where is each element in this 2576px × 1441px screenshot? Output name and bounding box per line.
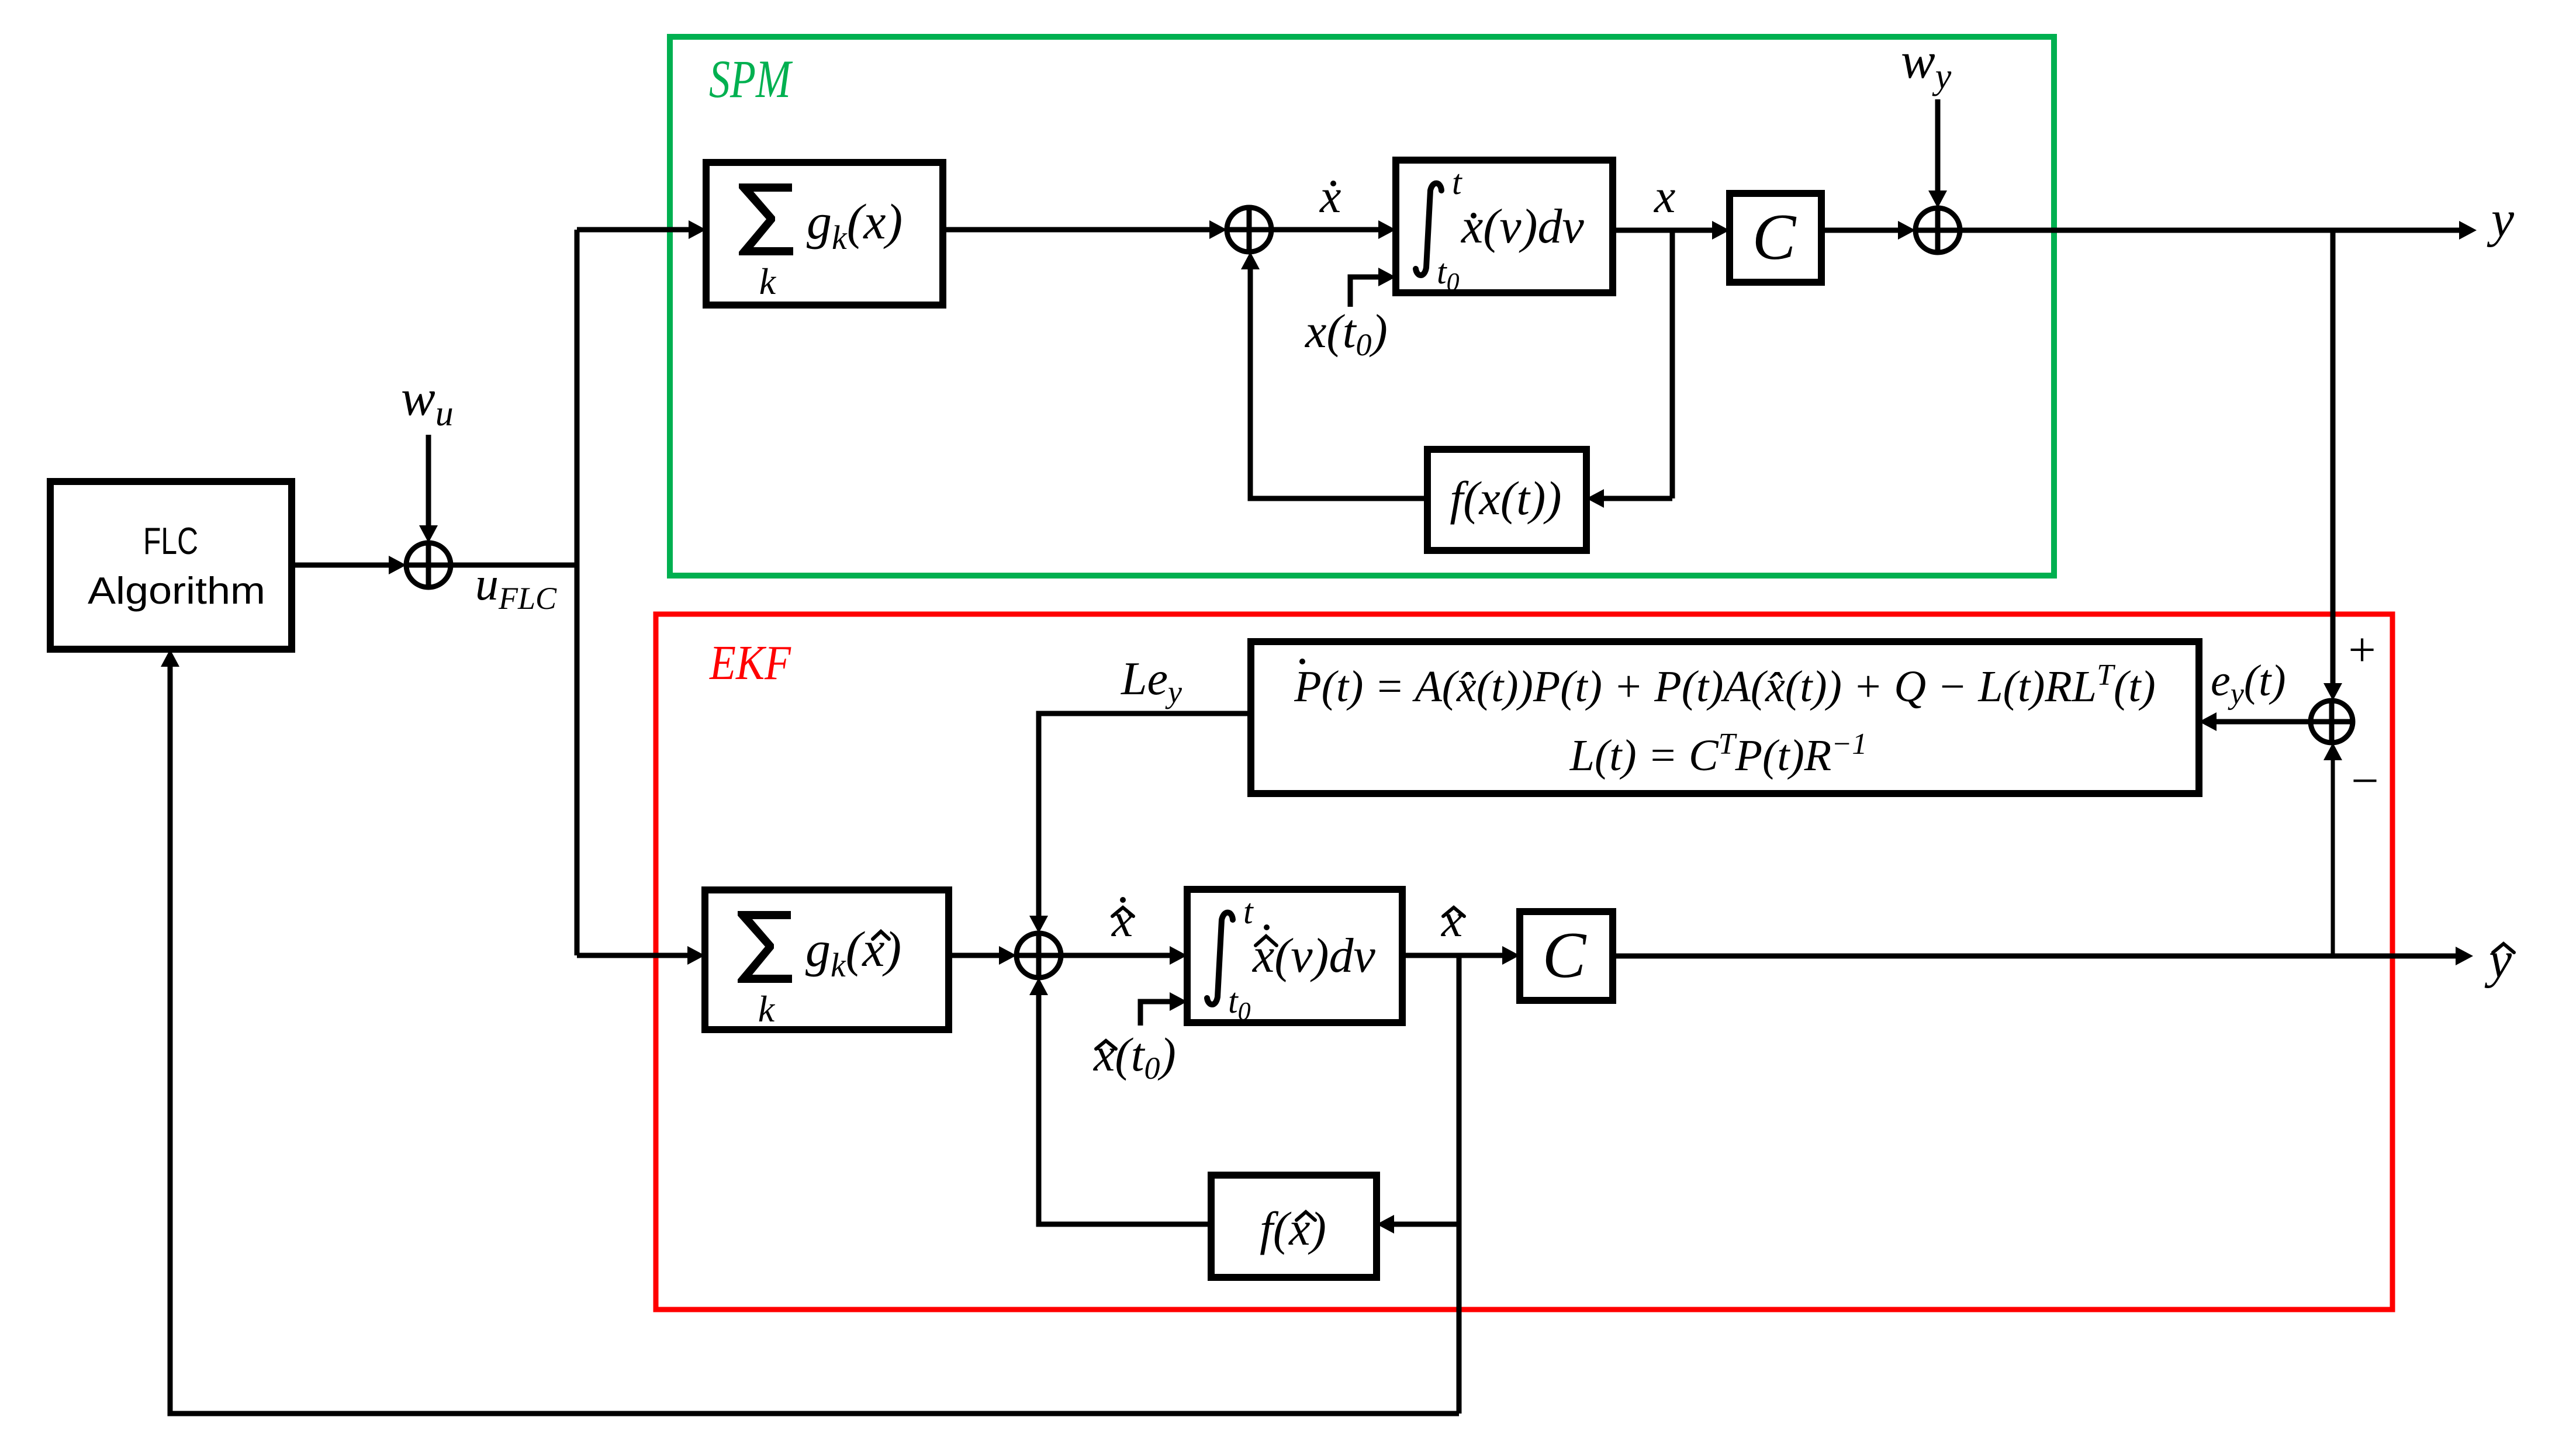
wire e_y summer output into P(t) block <box>2213 719 2311 725</box>
wire C block to w_y summer <box>1821 228 1901 233</box>
wire FLC output to w_u summer <box>292 563 392 568</box>
summer for w_y <box>1915 208 1960 252</box>
svg-text:x: x <box>1319 169 1341 223</box>
svg-text:Algorithm: Algorithm <box>88 569 265 612</box>
wire x node down-branch <box>1670 230 1675 498</box>
SPM C block <box>1730 193 1821 282</box>
svg-text:SPM: SPM <box>709 49 793 109</box>
SPM sum of g_k(x) block text <box>739 183 793 255</box>
svg-text:P(t) = A(x̂(t))P(t) + P(t)A(x̂: P(t) = A(x̂(t))P(t) + P(t)A(x̂(t)) + Q −… <box>1294 659 2155 711</box>
summer SPM state derivative <box>1227 207 1271 252</box>
EKF boundary (red frame) <box>656 614 2392 1310</box>
wire yhat output <box>1613 954 2459 959</box>
svg-text:x: x <box>1654 169 1675 223</box>
svg-text:wu: wu <box>401 370 454 434</box>
svg-text:y: y <box>2487 191 2515 248</box>
wire xhat node down-branch <box>1457 956 1462 1414</box>
wire xhat node into f(xhat) block <box>1391 1222 1459 1227</box>
wire trunk to EKF sum-of-g block <box>577 953 691 958</box>
summer EKF state derivative <box>1016 933 1061 978</box>
svg-text:+: + <box>2348 623 2376 677</box>
f(x(t)) feedback block <box>1427 449 1586 550</box>
EKF sum of g_k(xhat) block text <box>738 911 792 983</box>
svg-text:t: t <box>1452 163 1462 202</box>
svg-text:x: x <box>1441 893 1462 947</box>
svg-text:C: C <box>1752 201 1797 273</box>
svg-text:y: y <box>2484 932 2512 989</box>
svg-text:gk(x): gk(x) <box>805 921 901 984</box>
wire xhat(t0) initial condition elbow <box>1140 1002 1173 1026</box>
wire yhat minus branch up to e_y summer <box>2331 757 2335 956</box>
svg-text:L(t) = CTP(t)R−1: L(t) = CTP(t)R−1 <box>1569 728 1868 780</box>
svg-text:f(x): f(x) <box>1260 1202 1326 1255</box>
wire SPM integrator to C block (x node) <box>1613 228 1716 233</box>
summer for w_u <box>406 543 451 587</box>
summer e_y = y - yhat <box>2311 701 2353 743</box>
svg-text:k: k <box>758 988 776 1030</box>
svg-text:EKF: EKF <box>709 636 791 690</box>
svg-text:C: C <box>1543 919 1587 992</box>
wire xhat feedback to FLC Algorithm <box>170 663 1459 1414</box>
wire Le_y from P(t) block to EKF summer <box>1039 713 1251 919</box>
wire x(t0) initial condition elbow <box>1350 277 1382 307</box>
EKF integrator block <box>1187 889 1402 1023</box>
f(xhat) feedback block <box>1211 1175 1377 1277</box>
SPM sum of g_k(x) block <box>706 162 943 305</box>
wire EKF integrator to EKF C block (xhat node) <box>1402 953 1506 958</box>
wire u_FLC from summer to trunk <box>451 563 577 568</box>
svg-text:Ley: Ley <box>1121 653 1182 709</box>
wire trunk to SPM sum-of-g block <box>577 227 692 233</box>
svg-text:FLC: FLC <box>143 519 198 562</box>
wire f(xhat) output back to EKF summer <box>1039 992 1211 1224</box>
svg-text:wy: wy <box>1901 33 1952 96</box>
SPM integrator block <box>1396 160 1613 293</box>
wire y feedback drop to e_y summer <box>2330 230 2336 687</box>
EKF integrator block text <box>1207 913 1233 1004</box>
wire y output <box>1960 228 2463 233</box>
wire EKF g-block to EKF summer <box>949 953 1002 958</box>
svg-text:x(v)dv: x(v)dv <box>1251 929 1376 983</box>
svg-text:t: t <box>1243 892 1254 931</box>
svg-text:x(t0): x(t0) <box>1093 1028 1176 1086</box>
svg-text:x(v)dv: x(v)dv <box>1460 199 1585 254</box>
wire EKF summer to EKF integrator (xhatdot) <box>1061 953 1173 958</box>
svg-text:x(t0): x(t0) <box>1305 304 1388 362</box>
wire x node into f(x(t)) block <box>1600 496 1672 501</box>
SPM integrator block text <box>1416 183 1441 275</box>
svg-text:−: − <box>2351 754 2378 808</box>
svg-text:gk(x): gk(x) <box>807 193 903 257</box>
wire w_u disturbance arrow <box>426 435 431 529</box>
svg-text:ey(t): ey(t) <box>2211 656 2286 711</box>
P(t) Riccati equation block <box>1251 642 2199 794</box>
wire w_y disturbance arrow <box>1935 99 1941 194</box>
wire SPM summer to SPM integrator (xdot) <box>1271 227 1382 233</box>
SPM boundary (green frame) <box>670 37 2054 576</box>
wire SPM g-block to SPM summer <box>943 227 1213 233</box>
svg-text:k: k <box>759 261 777 302</box>
wire f(x(t)) output back to SPM summer <box>1250 266 1427 498</box>
EKF sum of g_k(xhat) block <box>705 890 949 1030</box>
EKF C block <box>1520 912 1613 1000</box>
wire u_FLC trunk vertical <box>575 230 580 955</box>
svg-text:f(x(t)): f(x(t)) <box>1450 472 1561 525</box>
FLC Algorithm block <box>50 482 292 649</box>
